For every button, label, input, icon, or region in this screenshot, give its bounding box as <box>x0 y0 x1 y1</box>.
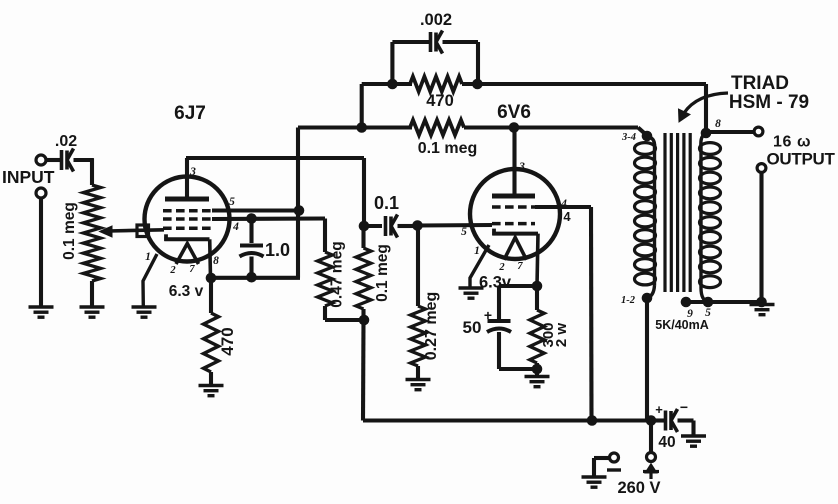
svg-text:2: 2 <box>498 262 505 273</box>
svg-text:1-2: 1-2 <box>621 295 636 306</box>
svg-text:−: − <box>680 399 688 415</box>
svg-text:.02: .02 <box>55 133 77 150</box>
svg-text:0.1 meg: 0.1 meg <box>374 244 391 302</box>
svg-text:6.3 v: 6.3 v <box>169 283 204 300</box>
svg-text:5: 5 <box>461 226 467 238</box>
svg-text:2: 2 <box>169 265 176 276</box>
svg-text:8: 8 <box>213 255 219 267</box>
svg-text:0.1: 0.1 <box>374 193 399 213</box>
svg-text:3: 3 <box>518 161 525 173</box>
svg-text:7: 7 <box>517 261 523 272</box>
svg-text:1.0: 1.0 <box>265 240 290 260</box>
svg-text:470: 470 <box>426 92 454 110</box>
svg-text:260 V: 260 V <box>617 479 660 497</box>
svg-text:+: + <box>655 402 663 417</box>
svg-text:6.3v: 6.3v <box>479 274 512 292</box>
svg-text:3: 3 <box>189 166 196 178</box>
svg-text:1: 1 <box>474 245 480 257</box>
svg-text:50: 50 <box>463 318 482 337</box>
svg-text:7: 7 <box>189 264 195 275</box>
svg-text:INPUT: INPUT <box>2 167 55 187</box>
svg-text:OUTPUT: OUTPUT <box>767 150 836 169</box>
svg-text:0.27 meg: 0.27 meg <box>423 292 440 360</box>
svg-text:3-4: 3-4 <box>621 132 636 143</box>
svg-text:4: 4 <box>232 221 239 233</box>
svg-text:HSM - 79: HSM - 79 <box>729 92 809 113</box>
svg-text:5: 5 <box>229 196 235 208</box>
svg-text:TRIAD: TRIAD <box>731 73 789 94</box>
svg-text:6V6: 6V6 <box>497 102 531 123</box>
svg-text:4: 4 <box>563 209 571 224</box>
svg-text:6J7: 6J7 <box>174 103 206 124</box>
svg-text:1: 1 <box>145 251 151 263</box>
svg-text:470: 470 <box>218 327 237 355</box>
svg-text:.002: .002 <box>420 11 452 29</box>
svg-text:8: 8 <box>715 118 721 130</box>
svg-text:16 ω: 16 ω <box>773 134 811 151</box>
svg-text:2 w: 2 w <box>553 323 570 348</box>
svg-text:0.47 meg: 0.47 meg <box>329 241 346 307</box>
svg-text:0.1 meg: 0.1 meg <box>418 140 478 157</box>
svg-text:0.1 meg: 0.1 meg <box>61 202 78 260</box>
svg-text:40: 40 <box>658 434 675 451</box>
svg-text:5K/40mA: 5K/40mA <box>655 318 709 332</box>
